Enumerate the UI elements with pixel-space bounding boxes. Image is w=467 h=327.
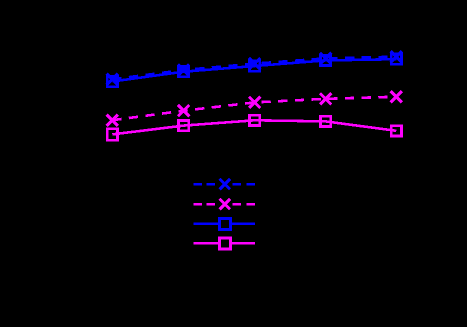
markers S2: magenta x [107,91,402,126]
series S3 line: blue solid [112,59,396,81]
markers S3: blue square [107,54,401,87]
markers S4: magenta square [107,115,401,140]
series S1 line: blue dashed [112,57,396,80]
markers S1: blue x [107,51,402,85]
series S2 line: magenta dashed [112,97,396,121]
series S4 line: magenta solid [112,120,396,134]
legend entry 3: blue solid line with square marker [194,218,255,229]
legend entry 1: blue dashed line with x marker [194,179,255,189]
legend entry 2: magenta dashed line with x marker [194,199,255,209]
legend entry 4: magenta solid line with square marker [194,238,255,249]
